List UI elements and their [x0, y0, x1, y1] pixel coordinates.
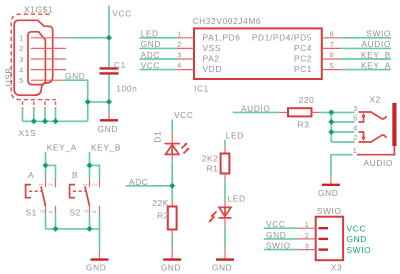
svg-text:2: 2 [19, 44, 24, 53]
svg-text:R3: R3 [298, 119, 310, 129]
svg-text:CH32V002J4M6: CH32V002J4M6 [193, 16, 262, 26]
svg-text:VSS: VSS [203, 43, 222, 53]
svg-text:LED: LED [141, 29, 159, 39]
svg-text:SWIO: SWIO [366, 29, 391, 39]
svg-text:D1: D1 [153, 131, 163, 143]
svg-text:5: 5 [19, 76, 24, 85]
svg-text:4: 4 [353, 123, 358, 132]
svg-text:3: 3 [353, 104, 358, 113]
svg-text:GND: GND [318, 188, 338, 198]
svg-text:4: 4 [93, 210, 99, 213]
svg-text:3: 3 [85, 210, 91, 213]
svg-text:KEY_A: KEY_A [47, 143, 77, 153]
svg-text:KEY_B: KEY_B [91, 143, 121, 153]
svg-text:100n: 100n [116, 83, 137, 93]
svg-text:1: 1 [177, 29, 182, 38]
svg-text:S2: S2 [70, 207, 81, 217]
svg-text:8: 8 [330, 29, 335, 38]
svg-text:GND: GND [212, 263, 232, 273]
svg-text:X1S: X1S [19, 128, 37, 138]
svg-text:KEY_B: KEY_B [361, 50, 391, 60]
svg-text:VCC: VCC [141, 60, 160, 70]
svg-text:PD1/PD4/PD5: PD1/PD4/PD5 [252, 32, 312, 42]
svg-text:GND: GND [141, 39, 161, 49]
svg-text:2K2: 2K2 [202, 154, 219, 164]
svg-text:VCC: VCC [112, 8, 131, 18]
svg-text:5: 5 [353, 114, 358, 123]
svg-text:VCC: VCC [266, 219, 285, 229]
svg-text:7: 7 [330, 40, 335, 49]
svg-text:2: 2 [49, 183, 55, 186]
svg-text:5: 5 [330, 61, 335, 70]
svg-text:S1: S1 [26, 207, 37, 217]
svg-text:GND: GND [86, 263, 106, 273]
svg-text:B: B [72, 170, 78, 180]
svg-text:1: 1 [305, 220, 310, 229]
svg-text:GND: GND [98, 124, 118, 134]
svg-text:C1: C1 [114, 60, 126, 70]
svg-text:220: 220 [299, 95, 315, 105]
svg-text:X2: X2 [370, 95, 381, 105]
svg-text:1: 1 [39, 183, 45, 186]
svg-text:2: 2 [305, 231, 310, 240]
svg-text:A: A [28, 170, 34, 180]
svg-text:GND: GND [161, 263, 181, 273]
svg-text:X3: X3 [331, 263, 342, 273]
svg-text:R1: R1 [207, 164, 219, 174]
svg-text:4: 4 [19, 65, 24, 74]
svg-text:1: 1 [83, 183, 89, 186]
svg-text:1: 1 [19, 34, 24, 43]
svg-text:X1G$1: X1G$1 [24, 5, 53, 15]
svg-text:2: 2 [93, 183, 99, 186]
svg-text:KEY_A: KEY_A [361, 60, 391, 70]
svg-text:R2: R2 [157, 210, 169, 220]
svg-text:LED: LED [228, 193, 246, 203]
svg-text:VCC: VCC [347, 224, 366, 234]
svg-text:PA1,PD6: PA1,PD6 [203, 32, 241, 42]
svg-text:2: 2 [353, 133, 358, 142]
svg-text:PA2: PA2 [203, 54, 220, 64]
svg-text:VDD: VDD [203, 64, 222, 74]
svg-text:AUDIO: AUDIO [364, 158, 394, 168]
svg-text:LED: LED [226, 131, 244, 141]
svg-text:USB: USB [3, 67, 13, 86]
svg-text:4: 4 [49, 210, 55, 213]
svg-text:GND: GND [347, 234, 367, 244]
svg-text:3: 3 [41, 210, 47, 213]
svg-text:22K: 22K [152, 198, 169, 208]
svg-text:GND: GND [65, 71, 85, 81]
svg-text:1: 1 [353, 146, 358, 155]
svg-text:6: 6 [330, 51, 335, 60]
svg-text:2: 2 [177, 40, 182, 49]
svg-text:3: 3 [19, 55, 24, 64]
svg-text:3: 3 [305, 242, 310, 251]
svg-text:SWIO: SWIO [266, 241, 291, 251]
svg-text:AUDIO: AUDIO [361, 39, 391, 49]
svg-text:SWIO: SWIO [347, 245, 372, 255]
svg-text:PC1: PC1 [294, 64, 312, 74]
svg-text:GND: GND [266, 230, 286, 240]
svg-text:4: 4 [177, 61, 182, 70]
svg-text:ADC: ADC [141, 50, 160, 60]
svg-text:PC4: PC4 [294, 43, 312, 53]
svg-text:IC1: IC1 [194, 84, 209, 94]
svg-text:PC2: PC2 [294, 54, 312, 64]
svg-text:SWIO: SWIO [317, 206, 342, 216]
svg-text:3: 3 [177, 51, 182, 60]
svg-text:VCC: VCC [174, 110, 193, 120]
